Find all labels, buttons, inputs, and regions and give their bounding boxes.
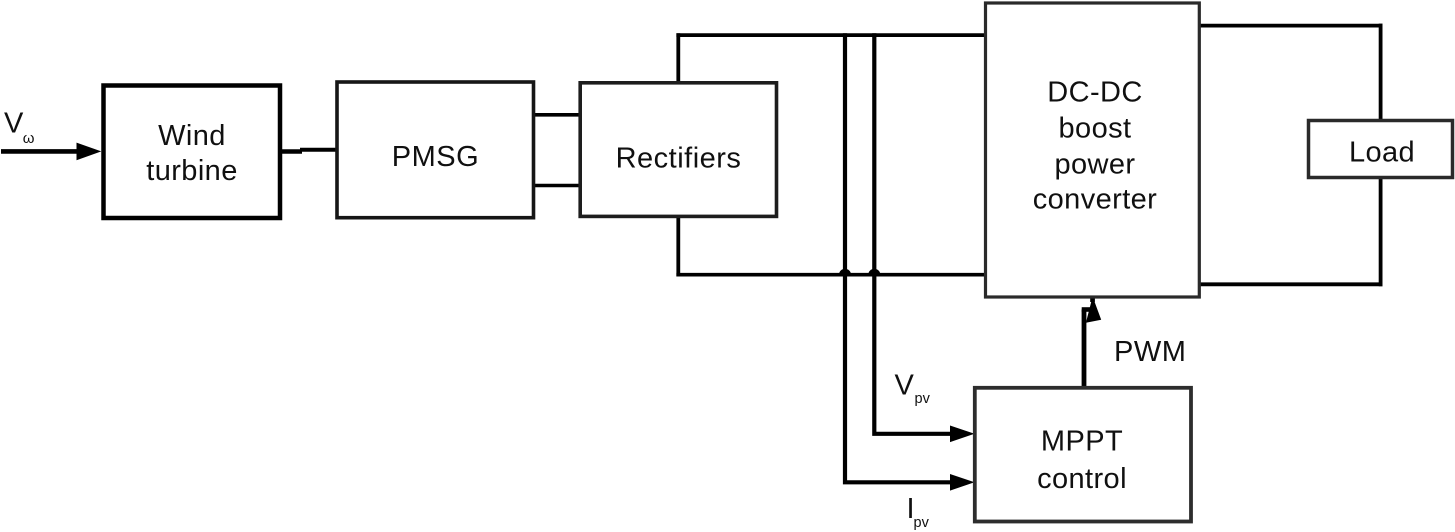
svg-text:Load: Load <box>1349 137 1415 169</box>
svg-text:boost: boost <box>1059 113 1132 145</box>
junction hop: bottom bus over Vpv line <box>868 269 880 275</box>
svg-text:converter: converter <box>1033 184 1158 216</box>
svg-text:ω: ω <box>23 130 35 147</box>
svg-text:V: V <box>895 370 915 402</box>
svg-text:pv: pv <box>915 391 931 407</box>
wire: vertical bus stub through Rectifiers (x=678) <box>676 33 680 276</box>
svg-text:PWM: PWM <box>1114 336 1186 368</box>
wire: vertical output wire through Load box (x=1381) <box>1379 24 1383 287</box>
label: Vpv <box>895 370 931 408</box>
label: V omega (wind speed input) <box>4 108 35 147</box>
block: DC-DC boost power converter <box>986 3 1200 297</box>
wire: sensing line Ipv (left vertical x=845, elbow to MPPT) <box>845 33 952 482</box>
arrowhead: wind speed input into Wind turbine <box>77 143 102 161</box>
svg-text:pv: pv <box>914 515 930 531</box>
wire: bottom DC bus from rectifier branch to DC-DC converter <box>676 273 986 277</box>
svg-text:V: V <box>4 108 24 140</box>
svg-text:MPPT: MPPT <box>1041 426 1123 458</box>
wire: PMSG to Rectifiers upper connector <box>532 113 580 117</box>
svg-text:Wind: Wind <box>158 120 226 152</box>
svg-text:Rectifiers: Rectifiers <box>616 143 742 175</box>
arrowhead: PWM into DC-DC converter (tilted, nub through box edge) <box>1086 294 1101 323</box>
block: Wind turbine <box>104 86 281 219</box>
wire: PMSG to Rectifiers lower connector <box>532 184 580 188</box>
block: PMSG <box>337 82 534 218</box>
wire: top DC bus from rectifier branch to DC-DC converter <box>676 33 986 37</box>
arrowhead: Vpv into MPPT control <box>950 426 975 443</box>
wire: sensing line Vpv (right vertical x=874, elbow to MPPT) <box>874 33 952 434</box>
junction hop: bottom bus over Ipv line <box>839 269 851 275</box>
svg-text:DC-DC: DC-DC <box>1047 76 1142 108</box>
wire: DC-DC output bottom to Load loop <box>1198 282 1383 286</box>
svg-text:PMSG: PMSG <box>392 141 479 173</box>
wire: DC-DC output top to Load loop <box>1198 24 1383 28</box>
wire: wind speed input arrow shaft <box>1 149 82 154</box>
block: MPPT control <box>975 388 1191 522</box>
svg-text:turbine: turbine <box>146 155 237 187</box>
wire: Wind turbine to PMSG (with small jog) <box>280 149 302 153</box>
arrowhead: Ipv into MPPT control <box>950 474 975 491</box>
svg-text:power: power <box>1055 149 1136 181</box>
wire: PWM line from MPPT up to DC-DC converter <box>1082 310 1087 390</box>
block: Rectifiers <box>580 83 776 217</box>
block: Load <box>1309 121 1453 178</box>
svg-text:control: control <box>1037 463 1127 495</box>
label: Ipv <box>907 493 930 531</box>
